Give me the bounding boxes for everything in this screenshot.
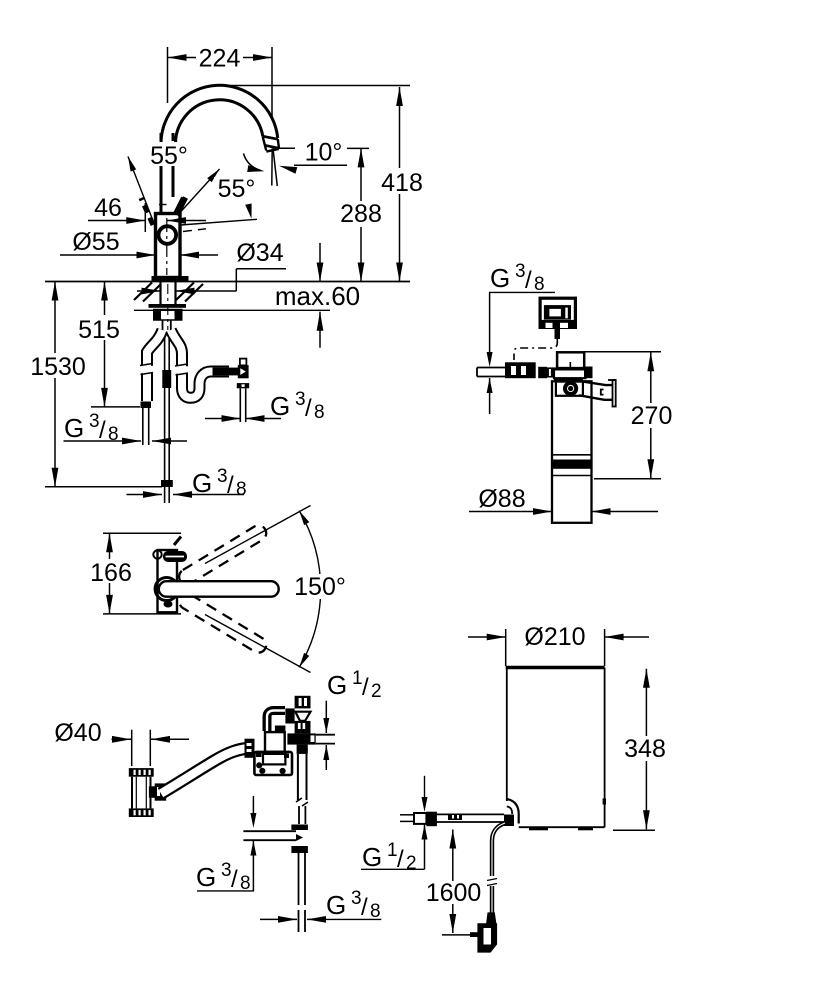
svg-text:46: 46 [94,194,122,222]
svg-text:1: 1 [387,840,398,861]
dimension D55 [60,228,218,258]
svg-text:2: 2 [406,853,417,874]
svg-text:515: 515 [78,316,120,344]
svg-text:G: G [270,391,290,421]
lever solid [174,197,186,215]
right hose trap [171,330,239,398]
svg-text:348: 348 [624,735,666,763]
filter inlet valve [505,362,536,378]
filter knob [565,383,576,394]
filter head [554,352,593,396]
valve inlet nut [245,739,255,758]
label G38 bottom [127,466,247,503]
svg-text:G: G [490,263,510,293]
mounting shank [161,282,176,331]
spout pill [159,581,279,597]
svg-text:G: G [196,862,216,892]
angle 55 lower [181,175,261,232]
spout aerator [263,136,279,151]
svg-text:418: 418 [381,169,423,197]
dimension max60 [275,243,360,348]
svg-text:/: / [305,395,312,422]
tee body [287,733,335,753]
svg-text:G: G [64,413,84,443]
dimension D40 [54,719,189,766]
hatching [134,283,203,302]
svg-text:288: 288 [340,200,382,228]
svg-text:Ø210: Ø210 [524,623,585,651]
label G38 mid [196,796,256,894]
angle 10 deg [244,139,348,174]
valve elbow [267,711,285,733]
left hose [140,330,163,445]
faucet body [156,214,181,278]
lever dashed [141,198,153,225]
faucet neck [159,133,173,214]
dimension 270 [584,352,675,479]
tank [506,668,606,831]
svg-text:/: / [231,866,238,893]
water stream line [272,149,278,187]
cylinder D40 [129,768,166,817]
svg-text:8: 8 [236,479,247,500]
svg-text:/: / [99,417,106,444]
display cable [514,339,557,360]
svg-text:3: 3 [217,466,228,487]
svg-text:270: 270 [631,402,673,430]
svg-text:55°: 55° [218,175,256,203]
center supply pipe [162,320,171,480]
label G38 filter [487,261,555,414]
svg-text:8: 8 [314,402,325,423]
filter cartridge [552,381,592,523]
svg-text:/: / [362,674,369,701]
faucet spout arc [161,85,278,144]
svg-text:Ø34: Ø34 [236,239,283,267]
solenoid [285,696,310,734]
svg-text:3: 3 [89,411,100,432]
top view body [158,537,188,613]
angle 55 upper [128,142,220,225]
outlet pipe [296,754,308,824]
svg-text:166: 166 [90,559,132,587]
label G12 left [323,668,381,770]
svg-text:/: / [361,894,368,921]
filter inlet pipe [477,368,506,377]
svg-text:G: G [192,468,212,498]
svg-text:/: / [525,267,532,294]
dimension 166 [89,533,181,614]
svg-text:1530: 1530 [30,353,86,381]
countertop [45,282,410,311]
dimension 348 [613,669,669,831]
swivel rays [205,506,311,673]
dimension 1530 [29,282,162,487]
dimension D34 [137,239,286,294]
filter bracket [579,380,616,407]
label G38 right [205,389,325,423]
dimension 46 [88,194,206,232]
handle circle [159,226,177,244]
svg-text:2: 2 [371,681,382,702]
dimension 515 [76,282,140,407]
dashed pill lower [176,591,269,656]
dashed pill upper [176,523,269,588]
check valve [237,359,249,422]
svg-text:G: G [362,842,382,872]
power cord [487,823,505,913]
hose to valve [161,748,250,794]
swivel arc 150 [291,511,350,668]
swivel circle [153,550,178,600]
tee fitting [243,825,308,933]
dimension D210 [468,623,649,666]
svg-text:G: G [327,670,347,700]
label G38 left [64,411,188,445]
svg-text:3: 3 [221,860,232,881]
tank supply pipe [400,799,519,826]
dimension 1600 [426,830,482,935]
dimension 224 [168,45,273,118]
svg-text:3: 3 [295,389,306,410]
svg-text:3: 3 [351,888,362,909]
faucet base flange [152,276,189,282]
power plug [470,912,497,951]
svg-text:Ø55: Ø55 [72,228,119,256]
svg-text:1: 1 [352,668,363,689]
valve body [254,732,292,775]
svg-text:55°: 55° [150,142,188,170]
svg-text:3: 3 [515,261,526,282]
svg-text:224: 224 [199,45,241,73]
svg-text:1600: 1600 [426,879,482,907]
svg-text:max.60: max.60 [275,281,360,311]
label G12 tank [361,776,428,874]
display unit [539,298,578,339]
filter fitting [538,367,558,378]
svg-text:Ø40: Ø40 [54,719,101,747]
svg-text:Ø88: Ø88 [478,485,525,513]
svg-text:G: G [326,890,346,920]
svg-text:8: 8 [108,424,119,445]
svg-text:150°: 150° [294,573,346,601]
mounting nut [149,304,187,320]
dimension D88 [469,485,658,515]
dimension 418 [230,86,427,282]
dimension 288 [338,148,384,281]
svg-text:10°: 10° [305,139,343,167]
label G38 bottom left [260,888,381,923]
